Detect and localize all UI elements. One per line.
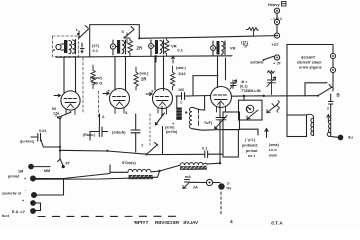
wire lamp branch bbox=[190, 181, 220, 183]
wire to output terminal bbox=[331, 136, 339, 139]
grid leak resistor dark bar bbox=[176, 96, 182, 120]
wire V3 grid leads bbox=[155, 56, 164, 91]
wire cap to V2 bbox=[90, 114, 100, 140]
svg-text:3u: 3u bbox=[348, 135, 353, 140]
svg-text:TH: TH bbox=[226, 187, 231, 191]
dashed earth line bbox=[38, 215, 180, 217]
IF transformer T2 primary circle bbox=[110, 44, 115, 49]
wave-change switch S1 bbox=[77, 26, 89, 39]
output transformer box B bbox=[239, 100, 263, 120]
wire V3 anode diagonal bbox=[155, 107, 165, 155]
resistor R6 zigzag bbox=[171, 66, 175, 90]
IF transformer T4 primary circle bbox=[211, 46, 216, 51]
trimmer C3 at V4 bbox=[230, 80, 237, 89]
svg-text:(oibuA): (oibuA) bbox=[112, 131, 126, 135]
svg-text:nrow ylguns: nrow ylguns bbox=[299, 66, 322, 70]
box C below bbox=[223, 130, 238, 157]
node T3 junction bbox=[155, 55, 157, 62]
svg-text:100: 100 bbox=[178, 88, 184, 92]
svg-text:(ww.): (ww.) bbox=[176, 66, 186, 70]
wire terminal column bbox=[276, 13, 278, 33]
wire V4 anode right bbox=[232, 95, 263, 97]
resistor R4 zigzag bbox=[91, 65, 95, 89]
node anode junction bbox=[243, 95, 265, 98]
meter lamp M1 bbox=[206, 179, 212, 185]
svg-text:0.1: 0.1 bbox=[178, 49, 183, 53]
dashed line near switch bbox=[149, 114, 151, 145]
svg-text:3.: 3. bbox=[125, 111, 128, 115]
svg-text:no t: no t bbox=[248, 154, 256, 158]
choke L2 core bar bbox=[129, 175, 156, 178]
valve V2 pins bbox=[115, 107, 124, 114]
IF transformer T2 core bbox=[117, 40, 120, 54]
wire volume column bbox=[59, 119, 61, 159]
switch S3 to HT1 bbox=[263, 56, 274, 61]
terminal LT plus bbox=[274, 19, 279, 24]
svg-text:1: 1 bbox=[180, 101, 182, 105]
svg-text:2.: 2. bbox=[102, 115, 105, 119]
svg-text:7uF): 7uF) bbox=[204, 121, 213, 125]
wire V4 anode top leads bbox=[218, 57, 226, 88]
screen dashed partition bbox=[82, 58, 84, 112]
wire trimmer column bbox=[219, 102, 221, 163]
svg-text:RECEIVER: RECEIVER bbox=[154, 220, 179, 225]
wire V1 grid leads bbox=[64, 57, 76, 92]
resistor R2 vertical zigzag bbox=[165, 38, 170, 56]
svg-text:0.1: 0.1 bbox=[202, 147, 207, 151]
capacitor C9 grid bbox=[131, 114, 140, 152]
speaker box bbox=[287, 115, 307, 137]
valve V3 electrodes bbox=[156, 97, 169, 106]
wire down from anode node bbox=[243, 96, 245, 100]
wire V2 grid leads bbox=[115, 57, 126, 91]
junction dot bus bbox=[138, 37, 140, 39]
svg-text:settlwO: settlwO bbox=[250, 61, 264, 65]
svg-text:(oma): (oma) bbox=[269, 143, 279, 147]
svg-text:2: 2 bbox=[327, 107, 329, 111]
screen dashed partition 2 bbox=[98, 91, 100, 119]
svg-text:2.: 2. bbox=[55, 114, 58, 118]
arrow to V1 bbox=[54, 94, 61, 97]
wire between speaker terminals bbox=[332, 59, 334, 88]
trimmer C4 variable bbox=[267, 73, 276, 95]
resistor R3 horizontal zigzag top right bbox=[247, 28, 259, 36]
svg-text:5: 5 bbox=[108, 90, 110, 94]
detector coil core dashes bbox=[198, 109, 200, 126]
IF transformer T2 winding bbox=[122, 40, 126, 54]
wire volume down column bbox=[110, 165, 128, 172]
coupling cap C8 bbox=[90, 127, 108, 137]
leads box outline bbox=[287, 45, 333, 117]
svg-text:5T: 5T bbox=[66, 162, 71, 166]
terminal bottom1 bbox=[31, 176, 36, 181]
wire L1 top bbox=[193, 96, 205, 110]
valve V4 electrodes bbox=[214, 95, 228, 105]
terminal bottom3 bbox=[31, 201, 36, 206]
svg-text:( 'p'L): ( 'p'L) bbox=[245, 138, 256, 142]
svg-text:TTAWILLIM: TTAWILLIM bbox=[241, 89, 261, 93]
svg-text:+2T: +2T bbox=[272, 43, 280, 47]
svg-text:VR: VR bbox=[230, 47, 236, 51]
svg-text:2R: 2R bbox=[141, 77, 147, 82]
valve V3 envelope bbox=[153, 89, 173, 109]
arrow to V3 bbox=[146, 93, 152, 96]
svg-text:elbixelf sdael: elbixelf sdael bbox=[297, 61, 322, 65]
svg-text:4t >: 4t > bbox=[241, 80, 248, 84]
svg-text:1M: 1M bbox=[18, 170, 23, 174]
svg-text:delsiwT: delsiwT bbox=[301, 56, 316, 60]
oscillator box outline bbox=[90, 25, 140, 57]
terminal HT1 plus bbox=[274, 55, 279, 60]
svg-text:4: 4 bbox=[230, 219, 233, 225]
svg-text:ZR: ZR bbox=[137, 46, 143, 51]
capacitor C5 bbox=[329, 94, 334, 119]
terminal speaker1 bbox=[331, 54, 336, 59]
box A IF output bbox=[223, 112, 240, 130]
valve V4 pins bbox=[217, 106, 226, 112]
valve V1 electrodes bbox=[64, 99, 77, 108]
HT bus top wire bbox=[139, 36, 277, 39]
svg-text:+ JT: + JT bbox=[273, 62, 282, 66]
T3 leads bbox=[151, 40, 155, 56]
svg-text:B: B bbox=[337, 93, 340, 98]
tone switch S5 bbox=[145, 143, 157, 156]
resistor R7 small zigzag bbox=[268, 71, 275, 74]
valve V3 pins bbox=[158, 107, 167, 114]
screen bus wire bbox=[56, 56, 232, 57]
HT feed wire bbox=[262, 95, 318, 97]
valve V1 envelope bbox=[61, 91, 80, 110]
wire terminal2 bracket bbox=[37, 179, 64, 195]
svg-text:pninut: pninut bbox=[246, 149, 258, 153]
svg-text:mA: mA bbox=[185, 175, 191, 179]
IF transformer T4 core bbox=[217, 41, 220, 55]
node audio junction bbox=[59, 146, 109, 152]
wire box link bbox=[240, 129, 259, 135]
choke L3 winding bbox=[180, 162, 207, 165]
diagonal annotation arrow right bbox=[267, 104, 278, 113]
wire tone to cap bbox=[148, 153, 204, 155]
volume switch S6 bbox=[58, 159, 65, 168]
svg-text:(mYw): (mYw) bbox=[166, 130, 178, 134]
mains switch S4 bbox=[317, 85, 333, 97]
terminal bottom4 bbox=[31, 209, 36, 214]
relay square symbol bbox=[282, 2, 287, 7]
wire terminal34 bracket bbox=[35, 203, 40, 211]
pickup cap C10 bbox=[31, 134, 60, 148]
svg-text:3: 3 bbox=[151, 90, 153, 94]
arrow up at bus bbox=[172, 56, 175, 63]
IF transformer T4 winding bbox=[222, 41, 226, 55]
svg-text:qu-kciq: qu-kciq bbox=[20, 140, 34, 144]
svg-text:t.: t. bbox=[76, 28, 78, 32]
svg-text:MM: MM bbox=[44, 169, 50, 173]
terminal speaker2 bbox=[331, 68, 336, 73]
wire grid V4 bbox=[185, 76, 218, 96]
resistor R1 vertical zigzag bbox=[128, 38, 133, 56]
speaker coil winding bbox=[307, 114, 314, 135]
svg-text:(Raas.): (Raas.) bbox=[83, 133, 95, 137]
terminal bottom2 bbox=[32, 193, 37, 198]
annotation arrow down-left bbox=[247, 110, 258, 119]
svg-text:0.1: 0.1 bbox=[93, 49, 99, 53]
terminal HT2 plus bbox=[274, 8, 279, 13]
wire T1 leads bbox=[61, 44, 64, 50]
wire rise to coil2 bbox=[160, 165, 181, 171]
svg-text:sseleriw nr: sseleriw nr bbox=[2, 192, 22, 196]
svg-text:5'Ow(s): 5'Ow(s) bbox=[122, 161, 137, 165]
svg-text:(www): (www) bbox=[90, 76, 103, 80]
svg-text:(0.1): (0.1) bbox=[240, 85, 248, 89]
detector coil L1 bbox=[185, 108, 192, 129]
aerial coil T1 winding bbox=[69, 40, 76, 55]
rheostat curl bbox=[277, 101, 280, 113]
aerial terminal A1 bbox=[53, 44, 61, 50]
arrow at C11 bbox=[183, 183, 189, 189]
svg-text:0.01: 0.01 bbox=[39, 129, 47, 133]
wire lower return bbox=[36, 171, 160, 179]
arrow label 2 bbox=[59, 117, 62, 120]
valve V2 electrodes bbox=[113, 97, 126, 106]
svg-text:E.A .LY: E.A .LY bbox=[12, 210, 26, 214]
dashed earth drop bbox=[220, 192, 222, 214]
choke L2 winding bbox=[128, 169, 151, 172]
valve V4 envelope bbox=[211, 87, 232, 108]
annotation e mark bbox=[246, 107, 249, 110]
terminal gram bbox=[29, 164, 50, 169]
svg-text:t.n.o: t.n.o bbox=[269, 148, 277, 152]
wire L3 to column bbox=[207, 162, 220, 165]
annotation arrow up bbox=[265, 129, 268, 138]
T4 leads bbox=[213, 41, 217, 56]
wire L1 bottom to box bbox=[192, 129, 223, 131]
svg-text:TYPE: TYPE bbox=[136, 220, 148, 225]
trimmer C6 bbox=[214, 115, 227, 129]
svg-text:Heavy: Heavy bbox=[268, 3, 280, 7]
svg-text:pnibnat2: pnibnat2 bbox=[242, 144, 258, 148]
field coil winding bbox=[327, 119, 330, 137]
scribble circle in box B bbox=[246, 105, 254, 113]
trimmer C1 dashes bbox=[126, 33, 130, 43]
svg-text:+: + bbox=[24, 177, 26, 181]
IF transformer T3 winding bbox=[160, 40, 164, 54]
svg-text:1U2: 1U2 bbox=[178, 71, 186, 76]
capacitor C7 tone bbox=[205, 151, 223, 158]
resistor R5 zigzag bbox=[134, 67, 138, 90]
svg-text:pninut: pninut bbox=[8, 175, 20, 179]
svg-text:tu=t: tu=t bbox=[2, 214, 10, 218]
IF transformer T3 primary circle bbox=[149, 44, 154, 49]
aerial coil T1 core bbox=[64, 40, 67, 53]
arrow on field coil bbox=[327, 115, 330, 122]
svg-text:+: + bbox=[22, 199, 24, 203]
terminal field bbox=[338, 135, 343, 140]
T2 leads bbox=[113, 40, 117, 55]
switch sub box bbox=[305, 83, 327, 96]
valve V1 pins bbox=[66, 109, 75, 115]
valve V2 envelope bbox=[110, 89, 130, 109]
choke L3 core bar bbox=[180, 165, 211, 170]
svg-text:60: 60 bbox=[52, 107, 56, 111]
arrow to V2 bbox=[103, 92, 109, 95]
terminal HT minus bbox=[219, 184, 224, 189]
terminal HT plus bbox=[274, 33, 279, 38]
svg-text:2A: 2A bbox=[193, 186, 198, 190]
capacitor C11 small bbox=[185, 180, 190, 183]
wire audio bus bbox=[60, 150, 147, 154]
svg-text:(27): (27) bbox=[92, 44, 100, 48]
svg-text:VR: VR bbox=[171, 44, 177, 49]
IF transformer T3 core bbox=[155, 40, 158, 54]
svg-text:750 O: 750 O bbox=[91, 81, 102, 86]
T1 screening can dashed bbox=[53, 36, 79, 57]
padder switch S2 bbox=[124, 27, 135, 39]
svg-text:'d: 'd bbox=[244, 45, 247, 49]
svg-text:(vw.): (vw.) bbox=[140, 72, 150, 76]
wire terminal1 right bbox=[36, 174, 111, 179]
svg-text:wum: wum bbox=[268, 154, 277, 158]
svg-text:A.T.S: A.T.S bbox=[271, 221, 283, 226]
switch under V1 bbox=[57, 110, 71, 119]
node column junction bbox=[219, 162, 221, 164]
svg-text:VALVE: VALVE bbox=[183, 220, 198, 225]
capacitor C2 100pF bbox=[176, 93, 190, 100]
node choke junction bbox=[152, 170, 161, 172]
trimmer marks below S1 bbox=[81, 43, 85, 53]
